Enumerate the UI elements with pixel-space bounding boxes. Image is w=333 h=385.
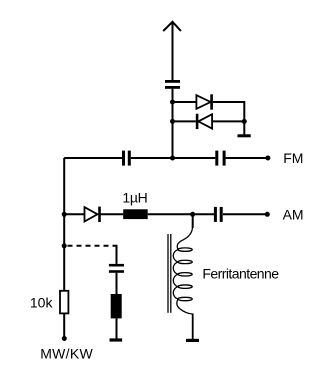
wire (172, 89, 174, 158)
wire (213, 102, 244, 121)
wire AM rail (64, 213, 267, 215)
wire (116, 318, 118, 339)
node F (190, 212, 195, 217)
capacitor C1 (165, 80, 180, 89)
inductor L2 (111, 294, 122, 318)
ground GND1 (238, 134, 251, 137)
antenna ANT1 (163, 22, 181, 80)
node AM terminal (265, 212, 270, 217)
svg-text:AM: AM (283, 206, 304, 222)
ferrite core (168, 234, 171, 313)
node D (170, 156, 175, 161)
resistor R1 (60, 291, 68, 314)
diode D2 (197, 114, 212, 129)
wire (173, 120, 196, 122)
ground GND2 (110, 338, 123, 341)
svg-text:10k: 10k (30, 295, 54, 311)
svg-text:Ferritantenne: Ferritantenne (202, 266, 279, 282)
inductor L1 (123, 209, 148, 219)
wire (243, 121, 245, 134)
node A (170, 100, 175, 105)
wire left rail (63, 158, 65, 290)
wire (192, 314, 194, 340)
wire dashed link (68, 245, 117, 247)
wire (173, 101, 197, 103)
wire (116, 245, 118, 264)
capacitor C4 (214, 207, 223, 222)
wire (192, 214, 194, 228)
diode D3 (85, 207, 100, 222)
node G (62, 243, 67, 248)
node C (242, 119, 247, 124)
svg-text:MW/KW: MW/KW (40, 345, 93, 361)
wire (116, 273, 118, 294)
node FM terminal (265, 156, 270, 161)
node MW/KW terminal (62, 336, 67, 341)
wire FM rail (64, 157, 268, 159)
capacitor C3 (215, 151, 225, 166)
node B (170, 119, 175, 124)
inductor L3 ferrite antenna coil (173, 227, 192, 315)
wire (212, 120, 244, 122)
diode D1 (196, 94, 211, 109)
capacitor C2 (122, 151, 131, 166)
wire (63, 314, 65, 339)
svg-text:FM: FM (283, 150, 303, 166)
node E (62, 212, 67, 217)
ground GND3 (186, 339, 199, 342)
svg-text:1µH: 1µH (122, 189, 147, 205)
capacitor C5 (109, 264, 124, 273)
